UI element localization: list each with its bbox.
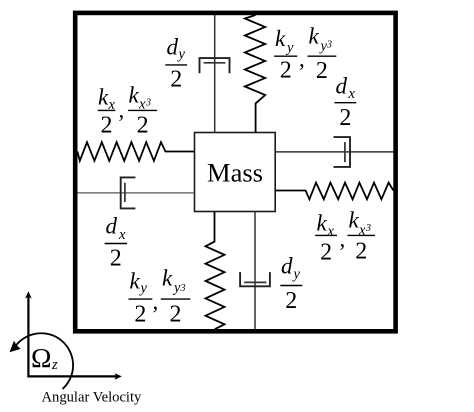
svg-text:,: , — [153, 289, 159, 314]
label dx/2 right — [335, 74, 357, 132]
svg-text:3: 3 — [180, 283, 186, 294]
svg-text:x: x — [358, 223, 366, 239]
arc arrowhead — [10, 341, 21, 353]
damper Dx left rod — [77, 192, 194, 194]
svg-text:y: y — [292, 267, 301, 283]
label dy/2 top — [165, 35, 187, 93]
svg-text:3: 3 — [326, 40, 332, 51]
svg-text:x: x — [327, 224, 335, 240]
svg-text:x: x — [118, 227, 126, 243]
svg-text:d: d — [106, 214, 118, 239]
label dx/2 left — [105, 214, 128, 272]
svg-text:,: , — [340, 227, 346, 252]
damper Dy bottom plate — [244, 281, 266, 283]
svg-text:z: z — [51, 357, 58, 373]
svg-text:2: 2 — [316, 58, 328, 84]
spring Kx left — [77, 142, 194, 161]
label kx/2 kx3/2 bottom-right — [315, 208, 375, 266]
svg-text:3: 3 — [365, 223, 371, 234]
svg-text:2: 2 — [134, 302, 146, 328]
damper Dx right rod — [275, 151, 393, 153]
label dy/2 bottom — [280, 254, 302, 315]
angular velocity arc — [14, 333, 74, 389]
svg-text:Angular Velocity: Angular Velocity — [42, 390, 143, 406]
svg-text:d: d — [281, 254, 293, 279]
damper Dy top plate — [204, 62, 226, 64]
x axis arrow — [27, 375, 116, 377]
svg-text:2: 2 — [320, 240, 332, 266]
svg-text:2: 2 — [110, 246, 122, 272]
svg-text:k: k — [162, 266, 173, 291]
svg-text:2: 2 — [285, 288, 297, 314]
y axis arrow — [27, 295, 29, 378]
label ky/2 ky3/2 top-right — [274, 24, 336, 85]
svg-text:Ω: Ω — [31, 343, 52, 373]
label kx/2 kx3/2 top-left — [98, 83, 158, 139]
svg-text:,: , — [299, 47, 305, 72]
svg-text:k: k — [98, 85, 109, 110]
svg-text:2: 2 — [170, 67, 182, 93]
svg-text:2: 2 — [355, 239, 367, 265]
damper Dy top cup — [200, 58, 230, 73]
damper Dy bottom cup — [240, 272, 270, 286]
svg-text:k: k — [129, 83, 140, 108]
outer frame — [75, 13, 395, 331]
svg-text:k: k — [130, 269, 141, 294]
damper Dx left plate — [124, 183, 126, 202]
spring Ky bottom — [206, 212, 225, 330]
spring Kx right — [275, 183, 393, 200]
svg-text:3: 3 — [145, 98, 151, 109]
svg-text:x: x — [348, 86, 356, 102]
label ky/2 ky3/2 bottom-left — [129, 266, 191, 328]
svg-text:k: k — [275, 26, 286, 51]
spring Ky top — [245, 15, 265, 133]
svg-text:2: 2 — [137, 113, 149, 139]
svg-text:d: d — [167, 35, 179, 60]
damper Dx left cup — [121, 177, 136, 208]
svg-text:k: k — [309, 24, 320, 49]
svg-text:2: 2 — [339, 105, 351, 131]
svg-text:k: k — [349, 208, 360, 233]
svg-text:Mass: Mass — [207, 158, 263, 188]
svg-text:d: d — [336, 74, 348, 99]
svg-text:y: y — [177, 47, 186, 63]
svg-text:2: 2 — [170, 302, 182, 328]
damper Dx right cup — [334, 137, 351, 167]
svg-text:k: k — [317, 211, 328, 236]
svg-text:,: , — [119, 98, 125, 123]
svg-text:y: y — [285, 40, 294, 56]
damper Dy top rod — [214, 15, 216, 133]
mass block — [195, 133, 276, 212]
svg-text:2: 2 — [101, 113, 113, 139]
damper Dx right plate — [344, 142, 346, 162]
svg-text:2: 2 — [280, 58, 292, 84]
damper Dy bottom rod — [254, 212, 256, 330]
svg-text:y: y — [139, 281, 148, 297]
